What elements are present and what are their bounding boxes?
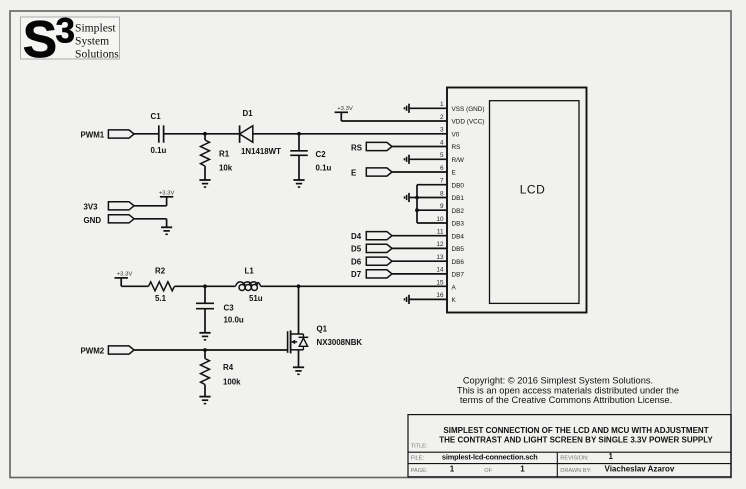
wire D4 to pin 11 xyxy=(392,235,447,237)
connector PWM1 xyxy=(108,130,134,138)
wire +3.3V to pin 2 VDD xyxy=(341,112,447,121)
wire R1 top stub xyxy=(204,134,206,140)
svg-text:FILE:: FILE: xyxy=(411,456,425,462)
connector GND xyxy=(108,215,134,223)
wire RS to pin 4 xyxy=(392,146,447,148)
junction node at R4 top xyxy=(203,348,207,352)
wire R4 top stub xyxy=(204,350,206,359)
svg-text:K: K xyxy=(452,297,457,304)
capacitor C3 xyxy=(196,303,214,308)
wire D5 to pin 12 xyxy=(392,247,447,249)
svg-text:0.1u: 0.1u xyxy=(151,146,167,155)
svg-text:DRAWN BY:: DRAWN BY: xyxy=(560,468,592,474)
junction node at C3 top xyxy=(203,284,207,288)
svg-text:Q1: Q1 xyxy=(317,324,328,333)
wire PWM2 to Q1 gate xyxy=(134,349,288,351)
svg-text:D7: D7 xyxy=(351,270,362,279)
svg-text:5: 5 xyxy=(440,152,444,159)
svg-text:DB6: DB6 xyxy=(452,259,465,266)
wire L1 to pin 15 A xyxy=(261,285,448,287)
transistor Q1 NX3008NBK xyxy=(288,330,309,353)
svg-text:0.1u: 0.1u xyxy=(316,164,332,173)
wire D1 to LCD pin 3 (V0) xyxy=(253,133,447,135)
svg-text:R1: R1 xyxy=(219,150,230,159)
svg-text:R2: R2 xyxy=(155,266,166,275)
ground at DB0-DB3 bus xyxy=(405,193,410,202)
ground at C2 xyxy=(293,180,304,187)
wire Q1 drain xyxy=(298,286,300,334)
wire pin 5 R/W xyxy=(409,158,447,160)
wire C1 to D1 cathode xyxy=(164,133,240,135)
svg-text:THE CONTRAST AND LIGHT SCREEN: THE CONTRAST AND LIGHT SCREEN BY SINGLE … xyxy=(439,436,713,445)
logo box S3 Simplest System Solutions xyxy=(21,17,120,59)
svg-text:4: 4 xyxy=(440,139,444,146)
svg-text:simplest-lcd-connection.sch: simplest-lcd-connection.sch xyxy=(442,453,538,462)
ground at Q1 source xyxy=(293,367,304,374)
svg-text:+3.3V: +3.3V xyxy=(117,272,133,278)
wire C2 to ground xyxy=(298,155,300,180)
svg-text:R/W: R/W xyxy=(452,157,465,164)
svg-text:This is an open access materia: This is an open access materials distrib… xyxy=(457,385,679,395)
svg-text:PWM2: PWM2 xyxy=(81,347,105,356)
svg-text:12: 12 xyxy=(436,241,444,248)
junction node bus at DB2 xyxy=(415,208,419,212)
svg-text:Solutions: Solutions xyxy=(75,47,119,60)
junction node at Q1 drain xyxy=(297,284,301,288)
svg-text:16: 16 xyxy=(436,292,444,299)
svg-text:9: 9 xyxy=(440,203,444,210)
wire R1 to ground xyxy=(204,166,206,180)
connector D5 xyxy=(366,244,392,252)
junction node bus at DB1 xyxy=(415,196,419,200)
svg-text:L1: L1 xyxy=(245,266,255,275)
svg-text:C3: C3 xyxy=(224,304,235,313)
ground at pin 5 xyxy=(405,155,410,164)
svg-text:3: 3 xyxy=(440,127,444,134)
svg-text:DB2: DB2 xyxy=(452,208,465,215)
svg-text:TITLE:: TITLE: xyxy=(411,444,428,450)
power +3.3V at 3V3 connector xyxy=(159,191,175,197)
svg-text:OF: OF xyxy=(484,468,492,474)
svg-text:51u: 51u xyxy=(249,294,263,303)
title block table xyxy=(408,415,731,477)
svg-text:REVISION:: REVISION: xyxy=(560,456,589,462)
svg-text:+3.3V: +3.3V xyxy=(337,106,353,112)
svg-text:Simplest: Simplest xyxy=(75,21,116,34)
svg-text:11: 11 xyxy=(437,229,444,236)
svg-text:V0: V0 xyxy=(452,131,460,138)
connector D7 xyxy=(366,270,392,278)
inductor L1 xyxy=(236,282,261,291)
resistor R2 xyxy=(149,282,175,291)
svg-text:DB0: DB0 xyxy=(452,182,465,189)
ground at R4 xyxy=(199,397,210,404)
ground at pin 1 xyxy=(405,104,410,113)
resistor R4 xyxy=(201,359,210,385)
wire Q1 source to ground xyxy=(298,350,300,368)
svg-text:PAGE:: PAGE: xyxy=(411,468,428,474)
wire R4 to ground xyxy=(204,385,206,397)
svg-text:RS: RS xyxy=(452,144,461,151)
svg-text:1N1418WT: 1N1418WT xyxy=(241,147,281,156)
svg-text:10.0u: 10.0u xyxy=(224,315,244,324)
wire C2 top stub xyxy=(298,134,300,151)
svg-text:A: A xyxy=(452,284,457,291)
svg-text:10: 10 xyxy=(436,216,444,223)
wire C3 to ground xyxy=(204,309,206,333)
svg-text:100k: 100k xyxy=(223,377,241,386)
power +3.3V at pin 2 xyxy=(335,106,353,112)
svg-text:7: 7 xyxy=(440,178,444,185)
diode D1 xyxy=(240,125,253,142)
wire PWM1 to C1 xyxy=(134,133,159,135)
svg-text:D4: D4 xyxy=(351,232,362,241)
wire D7 to pin 14 xyxy=(392,273,447,275)
ground at C3 xyxy=(199,333,210,340)
svg-text:LCD: LCD xyxy=(520,183,546,197)
svg-text:E: E xyxy=(351,169,356,178)
svg-text:S: S xyxy=(23,10,57,68)
wire R2 to L1 xyxy=(175,285,236,287)
svg-text:2: 2 xyxy=(440,114,444,121)
wire +3.3V to R2 xyxy=(121,278,148,286)
svg-text:3V3: 3V3 xyxy=(84,203,99,212)
resistor R1 xyxy=(201,140,210,166)
wire pin 1 VSS xyxy=(409,107,447,109)
svg-text:VSS (GND): VSS (GND) xyxy=(452,106,485,113)
ground at GND connector xyxy=(161,227,172,234)
svg-text:E: E xyxy=(452,170,456,177)
ground at R1 xyxy=(199,180,210,187)
LCD screen inner rectangle xyxy=(490,101,580,304)
svg-text:Viacheslav Azarov: Viacheslav Azarov xyxy=(605,464,675,473)
svg-text:5.1: 5.1 xyxy=(155,294,167,303)
svg-text:+3.3V: +3.3V xyxy=(159,191,175,197)
svg-text:C2: C2 xyxy=(316,150,327,159)
wire DB0-DB3 tie bus xyxy=(409,185,447,223)
svg-text:DB5: DB5 xyxy=(452,246,465,253)
svg-text:3: 3 xyxy=(56,12,75,51)
svg-text:D6: D6 xyxy=(351,257,362,266)
wire D6 to pin 13 xyxy=(392,260,447,262)
svg-text:1: 1 xyxy=(609,452,614,461)
svg-text:Copyright: © 2016 Simplest Sys: Copyright: © 2016 Simplest System Soluti… xyxy=(463,376,653,386)
power +3.3V at R2 xyxy=(115,272,133,278)
connector E xyxy=(366,168,392,176)
wire 3V3 to +3.3V rail xyxy=(134,197,167,206)
svg-text:NX3008NBK: NX3008NBK xyxy=(317,338,363,347)
svg-text:8: 8 xyxy=(440,190,444,197)
svg-text:PWM1: PWM1 xyxy=(81,130,105,139)
svg-text:GND: GND xyxy=(84,216,102,225)
svg-text:R4: R4 xyxy=(223,363,234,372)
svg-text:VDD (VCC): VDD (VCC) xyxy=(452,119,485,126)
junction node at C2 top xyxy=(297,132,301,136)
svg-text:D5: D5 xyxy=(351,245,362,254)
wire GND to ground xyxy=(134,219,167,228)
svg-text:1: 1 xyxy=(450,464,455,473)
svg-text:DB7: DB7 xyxy=(452,272,465,279)
svg-text:RS: RS xyxy=(351,143,362,152)
svg-text:14: 14 xyxy=(436,267,444,274)
svg-text:D1: D1 xyxy=(243,109,254,118)
ground at pin 16 xyxy=(405,295,410,304)
svg-text:terms of the Creative Commons: terms of the Creative Commons Attributio… xyxy=(460,395,672,405)
connector 3V3 xyxy=(108,202,134,210)
svg-text:DB1: DB1 xyxy=(452,195,465,202)
svg-text:SIMPLEST CONNECTION OF THE LC: SIMPLEST CONNECTION OF THE LCD AND MCU W… xyxy=(443,426,708,435)
svg-text:10k: 10k xyxy=(219,163,233,172)
svg-text:DB4: DB4 xyxy=(452,233,465,240)
connector RS xyxy=(366,142,392,150)
capacitor C2 xyxy=(290,151,308,156)
wire E to pin 6 xyxy=(392,171,447,173)
svg-text:C1: C1 xyxy=(151,112,162,121)
connector D4 xyxy=(366,232,392,240)
connector D6 xyxy=(366,257,392,265)
svg-text:System: System xyxy=(75,34,109,47)
svg-text:1: 1 xyxy=(440,101,444,108)
svg-text:DB3: DB3 xyxy=(452,221,465,228)
svg-text:6: 6 xyxy=(440,165,444,172)
capacitor C1 xyxy=(159,125,164,142)
wire C3 top stub xyxy=(204,286,206,303)
svg-text:13: 13 xyxy=(436,254,444,261)
junction node at R1 top xyxy=(203,132,207,136)
svg-text:1: 1 xyxy=(520,464,525,473)
connector PWM2 xyxy=(108,346,134,354)
wire pin 16 K xyxy=(409,298,447,300)
LCD outline U1 xyxy=(447,88,587,313)
